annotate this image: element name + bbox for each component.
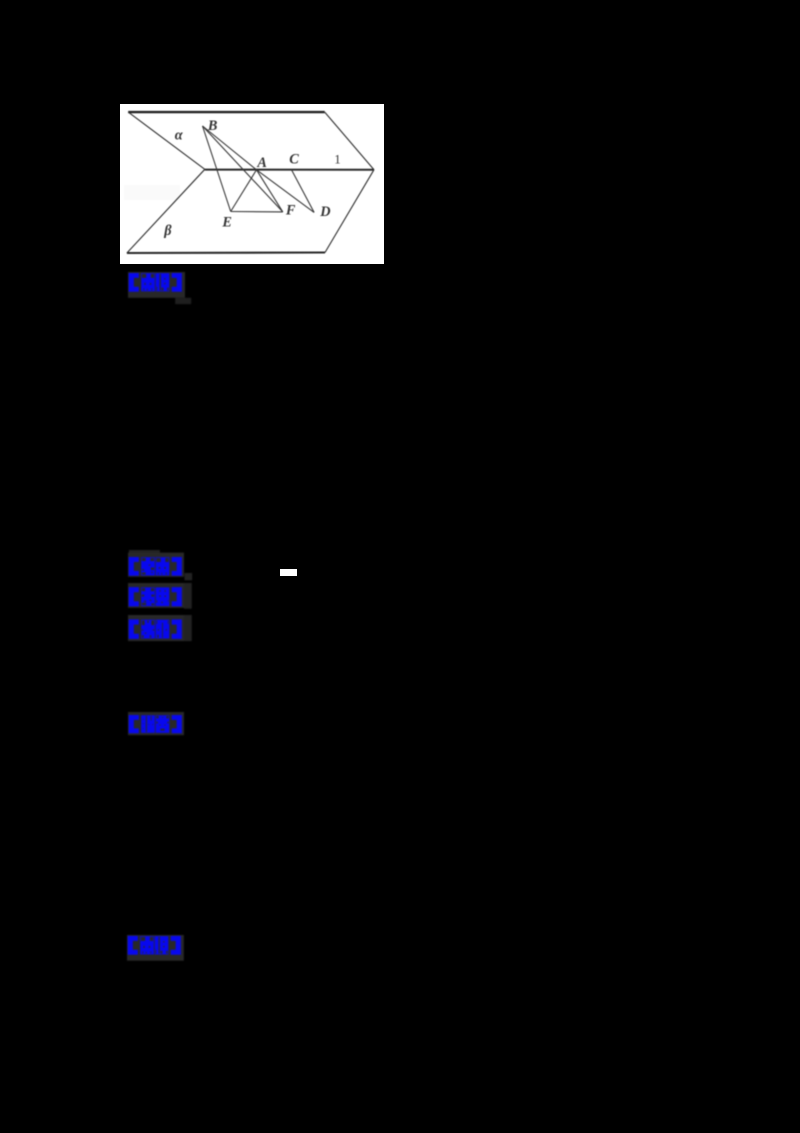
plane alpha right diagonal	[325, 112, 374, 170]
svg-text:B: B	[207, 118, 218, 134]
svg-text:E: E	[221, 214, 232, 230]
segment C-D	[292, 169, 315, 212]
plane beta left diagonal	[127, 169, 205, 253]
segment B-A	[203, 126, 257, 170]
faint artifact smudge	[124, 185, 180, 200]
segment B-E	[203, 126, 231, 212]
svg-text:1: 1	[334, 151, 341, 166]
segment A-F	[257, 169, 283, 211]
svg-text:α: α	[175, 127, 184, 143]
plane beta right diagonal	[325, 169, 374, 252]
svg-text:A: A	[256, 154, 267, 170]
segment B-F	[203, 126, 283, 212]
white dash (inverted formula image)	[280, 569, 297, 576]
segment E-F	[231, 210, 283, 212]
blue label [fen xi]	[128, 615, 192, 642]
svg-text:F: F	[285, 202, 296, 218]
blue label [dian ping] #2	[127, 935, 184, 961]
plane alpha left diagonal	[128, 112, 205, 169]
intersection line l	[205, 168, 374, 170]
segment A-D	[257, 169, 315, 212]
plane beta bottom edge	[127, 251, 325, 254]
figure image (white box with geometry diagram)	[120, 104, 384, 265]
segment A-E	[231, 169, 257, 211]
plane alpha top edge	[128, 110, 325, 112]
blue label [jie da]	[128, 712, 185, 736]
svg-text:D: D	[319, 204, 330, 220]
blue label [dian ping] #1	[128, 272, 194, 305]
svg-text:C: C	[289, 151, 299, 167]
glyph definitions for blue CJK-like labels	[0, 0, 1, 1]
svg-text:β: β	[163, 223, 172, 239]
blue label [kao dian]	[128, 550, 193, 581]
blue label [zhuan ti]	[128, 583, 192, 609]
